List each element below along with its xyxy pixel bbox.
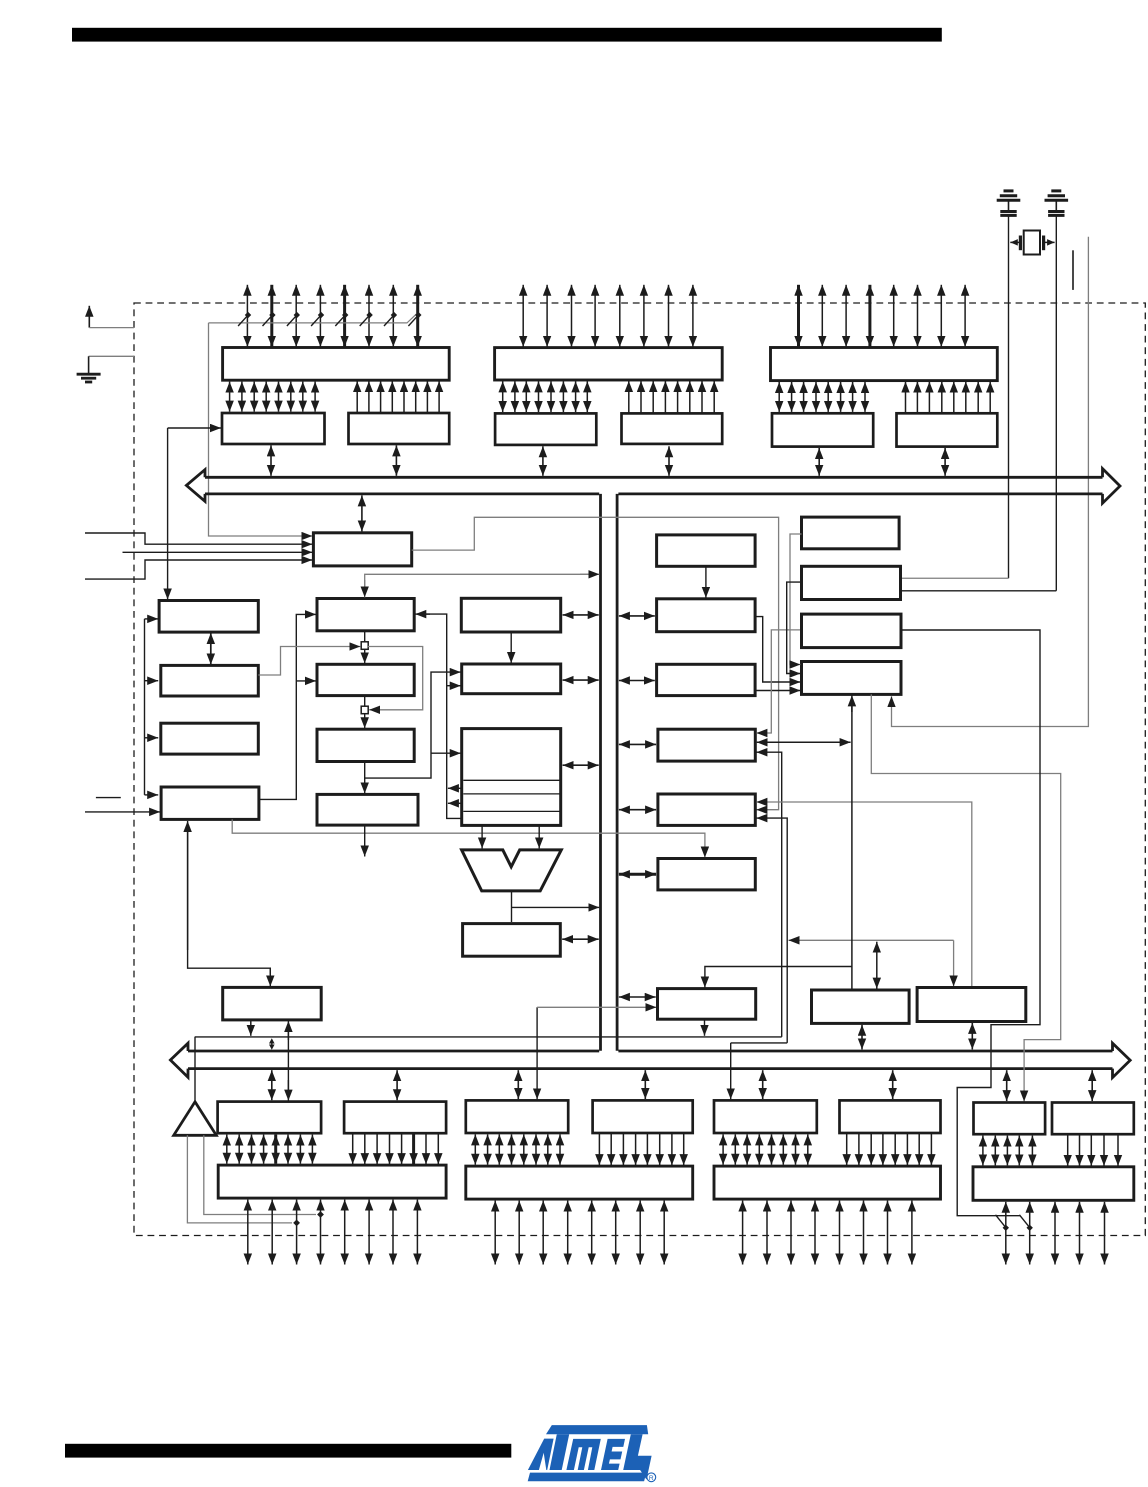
top header bar bbox=[72, 28, 942, 42]
gray wire D6 to oscillator-control right edge bbox=[756, 802, 971, 987]
wire C1 down to C2 bbox=[705, 566, 707, 598]
ALU trapezoid bbox=[462, 850, 562, 891]
gray wire loop into node square 2 bbox=[367, 647, 423, 710]
timer/counters box bbox=[802, 662, 902, 695]
EEPROM control box bbox=[657, 535, 756, 566]
double arrow lower bus to PORTB register bbox=[762, 1070, 764, 1099]
node square 2 bbox=[361, 706, 368, 714]
crystal left electrode bbox=[1019, 236, 1022, 251]
double arrow USART to timer net bbox=[757, 741, 851, 743]
wire B1 down into SRAM data box bbox=[510, 632, 512, 663]
crystal Y1 bbox=[1024, 231, 1040, 255]
register file internal lines X Y Z bbox=[463, 780, 560, 811]
crystal right electrode bbox=[1042, 236, 1045, 251]
stub RESET label line bbox=[96, 797, 121, 799]
wire crystal right to XTAL2 bbox=[1044, 241, 1055, 243]
PORTA driver-register double arrows bbox=[503, 381, 588, 412]
PORTB pin arrows (bidirectional pads) bbox=[743, 1201, 912, 1265]
PORTA direction register up arrows bbox=[629, 381, 714, 413]
double arrow lower bus to PORTG register bbox=[1006, 1070, 1008, 1101]
lower data bus line top right bbox=[618, 1050, 1112, 1053]
wire TOSC (gray long vertical into timer) bbox=[892, 237, 1089, 727]
arrow feeder into SRAM row bbox=[296, 680, 316, 682]
double arrow MCU ctrl to upper bus bbox=[361, 495, 363, 531]
status register box bbox=[463, 924, 561, 957]
PORTG pin control slashes (TOSC pins) bbox=[996, 1215, 1033, 1231]
PORTD drivers/buffers box bbox=[466, 1166, 693, 1199]
PORTA drivers/buffers box bbox=[495, 348, 723, 380]
wire interrupt unit bottom to comparator net bbox=[704, 1019, 706, 1036]
arrow down into PORTE register bbox=[287, 1080, 289, 1101]
double arrow SPI interface to lower bus bbox=[861, 1025, 863, 1050]
external stub into instruction decoder bbox=[85, 811, 160, 813]
general purpose registers box bbox=[317, 729, 414, 761]
double arrow lower bus to PORTD ddr bbox=[644, 1070, 646, 1099]
registered trademark symbol bbox=[647, 1473, 656, 1482]
wire L4/L5 connector (inverted U) bbox=[188, 823, 271, 975]
MCU control register box bbox=[313, 533, 411, 566]
comparator/interrupt horizontal net W1036 bbox=[195, 1036, 782, 1038]
double arrow calib oscillator to lower bus bbox=[971, 1023, 973, 1050]
wire C3 right to T/C register block bbox=[755, 690, 800, 692]
gray wire D1 into timer/counters bbox=[790, 534, 802, 665]
PORTD data direction register box bbox=[593, 1100, 693, 1133]
PORTC pin arrows (bidirectional pads) bbox=[799, 285, 966, 347]
wire register file to ALU left input bbox=[481, 825, 483, 848]
PORTG register-driver double arrows bbox=[983, 1136, 1033, 1166]
gray branch status register to interrupt unit C7 bbox=[537, 1006, 656, 1008]
PORTF driver-register double arrows bbox=[230, 382, 316, 412]
PORTC direction register up arrows bbox=[906, 382, 991, 413]
PORTD data register box bbox=[466, 1100, 568, 1133]
wire XTAL1 into oscillator box bbox=[900, 577, 1009, 579]
arrow V2 into SRAM data box bbox=[447, 685, 461, 687]
dashed chip boundary bbox=[134, 303, 1145, 1236]
arrow up into timer/counters bottom bbox=[851, 695, 853, 712]
upper data bus line top bbox=[205, 476, 1103, 479]
wire watchdog to W1036 bbox=[250, 1020, 252, 1036]
external stub 1 into MCU ctrl bbox=[85, 533, 312, 544]
wire to USART port register (from hidden net) bbox=[536, 1007, 538, 1099]
ground symbol bbox=[77, 356, 101, 382]
PORTB register-driver double arrows bbox=[723, 1134, 808, 1164]
lower data bus line top left bbox=[188, 1050, 599, 1053]
SPI interface box bbox=[812, 990, 910, 1023]
PORTE pin arrows (bidirectional pads) bbox=[248, 1200, 418, 1265]
PORTA data direction register box bbox=[622, 413, 723, 444]
double arrow W940 to D5 top bbox=[876, 942, 878, 989]
arrow down into stack pointer bbox=[364, 580, 366, 597]
svg-text:R: R bbox=[649, 1475, 654, 1482]
comparator input AIN0 (gray) bbox=[187, 1135, 292, 1223]
PORTB drivers/buffers box bbox=[714, 1166, 941, 1199]
VCC pin arrow bbox=[88, 306, 90, 328]
program counter box bbox=[159, 601, 258, 633]
control lines arrow below decoder2 bbox=[364, 825, 366, 856]
wire XTAL2 vertical (cap to oscillator box) bbox=[1055, 215, 1057, 590]
wire D2 into timer/counters bbox=[787, 582, 802, 673]
double arrow W1036 to lower bus bbox=[269, 1038, 275, 1050]
PORTE direction register down arrows bbox=[353, 1134, 439, 1164]
wire comparator output up to W1036 bbox=[194, 1037, 196, 1102]
PORTF drivers/buffers box bbox=[223, 348, 450, 381]
wire watchdog/PORTE long connector bbox=[287, 1030, 289, 1091]
oscillator control box bbox=[658, 794, 755, 825]
upper data bus left arrowhead bbox=[186, 470, 205, 502]
timing and control box bbox=[658, 859, 755, 890]
double arrow lower bus to PORTE register bbox=[271, 1070, 273, 1100]
lower data bus line bottom bbox=[188, 1067, 1113, 1070]
wire PORTF DDR to program counter bbox=[168, 427, 221, 429]
wire stack pointer to SRAM via node square bbox=[364, 631, 366, 664]
double arrow program counter / program flash bbox=[210, 633, 212, 665]
upper data bus line bottom right bbox=[618, 492, 1102, 495]
UART1 box bbox=[802, 614, 902, 648]
double arrow B2 to channel bbox=[563, 679, 599, 681]
instruction decoder box bbox=[161, 787, 259, 819]
wire SRAM to registers via node square bbox=[364, 696, 366, 729]
comparator input AIN1 (gray) bbox=[204, 1135, 316, 1214]
arrowhead into channel bbox=[580, 573, 599, 575]
wire lower net into C5 right edge bbox=[756, 818, 787, 1043]
PORTB data direction register box bbox=[840, 1100, 941, 1133]
wire VCC to border bbox=[89, 327, 134, 329]
junction dot AIN1 on PE3 pin bbox=[317, 1211, 324, 1218]
wire XTAL1 vertical (cap to oscillator box) bbox=[1008, 215, 1010, 578]
PORTF data register box bbox=[222, 413, 325, 444]
SRAM data box bbox=[462, 664, 561, 694]
vertical bus channel right line bbox=[616, 494, 619, 1051]
arrow X row into V2 bbox=[448, 787, 462, 789]
double arrows channel to C column: C2 bbox=[619, 615, 655, 617]
PORTB direction register down arrows bbox=[847, 1134, 932, 1166]
arrow into program counter bbox=[145, 618, 159, 620]
PORTA pin arrows (bidirectional pads) bbox=[523, 285, 693, 347]
arrow Y row into V2 bbox=[448, 802, 462, 804]
double arrow channel to C7 bbox=[619, 996, 656, 998]
PORTG drivers/buffers box bbox=[973, 1167, 1134, 1201]
double arrow lower bus to PORTD register bbox=[517, 1070, 519, 1099]
wire ALU output to status register bbox=[511, 891, 513, 922]
PORTF register to data-bus double arrows bbox=[271, 445, 396, 475]
wire register file to ALU right input bbox=[538, 825, 540, 848]
wire XTAL2 into oscillator box bbox=[901, 590, 1057, 592]
analog comparator triangle bbox=[174, 1102, 217, 1136]
PORTF direction register up arrows bbox=[357, 381, 439, 412]
wire V_A branch into interrupt unit top bbox=[705, 967, 852, 988]
upper data bus right arrowhead bbox=[1103, 469, 1121, 504]
V2 wire stack pointer right net bbox=[417, 614, 462, 818]
interrupt unit box bbox=[658, 989, 756, 1020]
arrow up into instruction decoder bottom bbox=[187, 821, 189, 950]
control feeder line left column bbox=[144, 619, 146, 795]
wire C2 right to T/C register block bbox=[755, 617, 800, 682]
branch registers to general-registers block bbox=[365, 672, 461, 778]
double arrow lower bus to PORTB ddr bbox=[892, 1070, 894, 1099]
PORTC data direction register box bbox=[897, 413, 998, 446]
SPI box bbox=[657, 664, 756, 695]
external stub 3 into MCU ctrl bbox=[85, 560, 312, 579]
branch ALU output to channel bbox=[512, 906, 600, 908]
gray wire W940 into lower net bbox=[789, 939, 954, 941]
PORTC driver-register double arrows bbox=[779, 382, 865, 412]
arrow into port B register box top bbox=[730, 1043, 732, 1099]
instruction register box bbox=[161, 723, 258, 754]
oscillator box bbox=[802, 566, 901, 599]
AGND rail+cap symbol bbox=[1045, 191, 1069, 216]
arrow down into watchdog box top bbox=[269, 968, 271, 986]
PORTA data register box bbox=[495, 413, 596, 445]
PORTG data register box bbox=[974, 1103, 1046, 1135]
wire from below into USART right edge bbox=[756, 752, 781, 1037]
upper data bus line bottom left bbox=[205, 492, 599, 495]
USART0 box bbox=[658, 729, 755, 761]
wire instruction decoder gray control line bbox=[232, 819, 705, 857]
PORTE data register box bbox=[218, 1102, 322, 1134]
watchdog timer box bbox=[223, 987, 322, 1020]
wire lower net tail crossing to SPI port box bbox=[731, 1042, 788, 1044]
double arrow channel to C3 bbox=[619, 680, 655, 682]
wire instruction decoder to stack pointer / SRAM feeder bbox=[259, 614, 316, 799]
gray wire program flash to node squares bbox=[258, 647, 360, 676]
PORTC data register box bbox=[772, 413, 873, 446]
SRAM box bbox=[317, 664, 414, 695]
arrow into instruction register bbox=[145, 737, 159, 739]
double arrow channel to C4 bbox=[619, 743, 656, 745]
timer/counter prescaler box bbox=[802, 517, 900, 549]
PORTG data direction register box bbox=[1052, 1103, 1134, 1135]
bottom footer bar bbox=[65, 1444, 511, 1458]
general register file box (X Y Z) bbox=[462, 729, 561, 826]
wire stack pointer to bus channel bbox=[365, 574, 590, 590]
arrowhead into stack pointer right bbox=[415, 613, 430, 615]
wire V_B timer/counters to PG port bbox=[871, 694, 1060, 1101]
program flash box bbox=[161, 665, 258, 696]
PORTE data direction register box bbox=[344, 1102, 446, 1134]
wire MCU ctrl to oscillator (gray, long) bbox=[412, 517, 779, 809]
junction dot AIN0 on PE2 pin bbox=[293, 1220, 300, 1227]
arrow into register file left bbox=[431, 752, 461, 754]
PORTA register to data-bus double arrows bbox=[543, 446, 669, 476]
node square 1 bbox=[361, 642, 368, 650]
double arrow register file to channel bbox=[563, 764, 599, 766]
lower data bus right arrowhead bbox=[1113, 1043, 1131, 1077]
calibrated oscillator box bbox=[917, 988, 1026, 1022]
PORTG pin arrows (bidirectional pads) bbox=[1006, 1202, 1105, 1265]
PORTF pin arrows (bidirectional pads) bbox=[247, 285, 417, 347]
double arrow lower bus to PORTG ddr bbox=[1091, 1070, 1093, 1101]
external stub 2 into MCU ctrl bbox=[123, 551, 313, 553]
PORTE register-driver double arrows bbox=[227, 1135, 313, 1164]
PORTF pin control slashes and junction dots bbox=[209, 312, 422, 326]
wire D3 to USART right edge bbox=[756, 630, 801, 733]
PORTD pin arrows (bidirectional pads) bbox=[495, 1201, 664, 1265]
PORTB data register box bbox=[714, 1100, 817, 1133]
wire PORTF slash row to MCU ctrl (gray) bbox=[209, 323, 313, 536]
PORTD direction register down arrows bbox=[599, 1134, 683, 1166]
double arrow status register to channel bbox=[562, 938, 599, 940]
PORTC drivers/buffers box bbox=[771, 348, 998, 381]
program counter high box bbox=[461, 598, 560, 632]
vertical bus channel left line bbox=[599, 494, 602, 1051]
arrow up into watchdog bbox=[287, 1021, 289, 1040]
wire crystal left to XTAL1 bbox=[1010, 241, 1020, 243]
wire registers to decoder2 bbox=[364, 762, 366, 794]
PORTD register-driver double arrows bbox=[475, 1134, 560, 1164]
PORTF data direction register box bbox=[349, 413, 450, 444]
EEPROM box bbox=[657, 599, 756, 632]
gray wire W940 down into D6 bbox=[953, 940, 955, 986]
AVCC rail+cap symbol bbox=[997, 191, 1021, 216]
stack pointer box bbox=[317, 599, 414, 631]
arrow into instruction decoder bbox=[145, 794, 159, 796]
PORTE drivers/buffers box bbox=[218, 1165, 446, 1198]
wire GND to border bbox=[89, 355, 134, 357]
double arrows B column to channel: B1 bbox=[563, 614, 599, 616]
arrow into program flash bbox=[145, 680, 159, 682]
PORTG direction register down arrows bbox=[1068, 1135, 1118, 1166]
PORTC register to data-bus double arrows bbox=[819, 448, 945, 476]
wire D3 long control to PG slashes bbox=[901, 630, 1040, 1216]
double arrow channel to C5 bbox=[619, 809, 656, 811]
Atmel logo bbox=[528, 1425, 652, 1481]
wire V_A timer/counters to SPI and interrupt bbox=[851, 706, 853, 989]
lower data bus left arrowhead bbox=[170, 1043, 188, 1077]
wire down into program counter top bbox=[167, 428, 169, 600]
stub line PEN pin bbox=[1072, 250, 1074, 290]
double arrow channel to C6 (bold) bbox=[619, 873, 656, 876]
instruction decoder2 box bbox=[317, 794, 418, 825]
double arrow lower bus to PORTE ddr bbox=[396, 1070, 398, 1100]
